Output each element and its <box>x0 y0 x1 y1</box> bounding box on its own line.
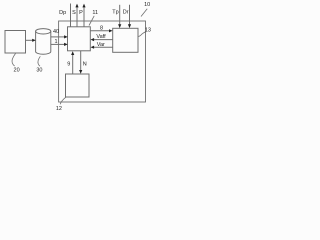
svg-text:20: 20 <box>14 67 20 73</box>
wire 9 (box 12 up to box 11) <box>72 55 74 74</box>
output line P <box>83 7 85 27</box>
wire N (box 11 down to box 12) <box>80 51 82 71</box>
arrowhead Vaff into box 11 <box>91 38 95 41</box>
svg-text:30: 30 <box>36 67 42 73</box>
arrowhead S up <box>75 4 78 8</box>
svg-text:40: 40 <box>53 29 59 35</box>
arrowhead wire 1 into box 11 <box>64 43 68 46</box>
leader line to label 13 <box>138 32 146 37</box>
wire box20 to cylinder <box>26 39 34 41</box>
svg-text:10: 10 <box>144 2 150 8</box>
svg-text:8: 8 <box>100 25 103 31</box>
input line Tp <box>119 5 121 25</box>
svg-text:11: 11 <box>92 10 98 16</box>
svg-text:9: 9 <box>67 62 70 68</box>
wire 8 (box 11 to box 13) <box>90 30 111 32</box>
background <box>0 0 154 120</box>
cylinder 30 (store) <box>36 31 51 54</box>
box 11 (central processing unit) <box>68 27 91 51</box>
arrowhead into cylinder <box>32 39 36 42</box>
input line Dr <box>129 5 131 25</box>
box 13 (right unit) <box>113 28 138 52</box>
arrowhead wire N down into box 12 <box>79 70 82 74</box>
leader line to label 20 <box>12 54 16 67</box>
svg-text:Dp: Dp <box>59 10 66 16</box>
svg-text:S: S <box>72 10 76 16</box>
wire Var (box 13 to box 11) <box>92 46 113 48</box>
arrowhead Var into box 11 <box>91 46 95 49</box>
leader line to label 10 <box>141 9 147 17</box>
wire 40 upper (cylinder to box 11) <box>51 36 66 38</box>
arrowhead wire 9 up into box 11 <box>71 51 74 55</box>
svg-text:Dr: Dr <box>123 10 129 16</box>
output line S <box>76 7 78 27</box>
arrowhead Tp down into box 13 <box>118 24 121 28</box>
svg-text:1: 1 <box>54 39 57 45</box>
leader line to label 12 <box>60 97 66 105</box>
svg-text:12: 12 <box>56 106 62 112</box>
arrowhead wire 40 into box 11 <box>64 35 68 38</box>
svg-text:N: N <box>83 62 87 68</box>
wire 1 lower (cylinder to box 11) <box>51 43 66 45</box>
wire Vaff (box 13 to box 11) <box>92 39 113 41</box>
box 20 (source unit) <box>5 31 26 54</box>
leader line to label 11 <box>89 16 94 26</box>
arrowhead wire 8 into box 13 <box>109 29 113 32</box>
svg-text:Tp: Tp <box>112 10 118 16</box>
arrowhead P up <box>82 4 85 8</box>
svg-text:P: P <box>79 10 83 16</box>
output line Dp (no arrow) <box>70 4 72 27</box>
svg-text:Var: Var <box>97 42 105 48</box>
svg-text:Vaff: Vaff <box>96 34 106 40</box>
box 12 (lower unit) <box>66 74 90 97</box>
leader line to label 30 <box>38 56 40 66</box>
outer rectangle 10 (device boundary) <box>59 21 146 102</box>
arrowhead Dr down into box 13 <box>128 24 131 28</box>
svg-text:13: 13 <box>145 28 151 34</box>
